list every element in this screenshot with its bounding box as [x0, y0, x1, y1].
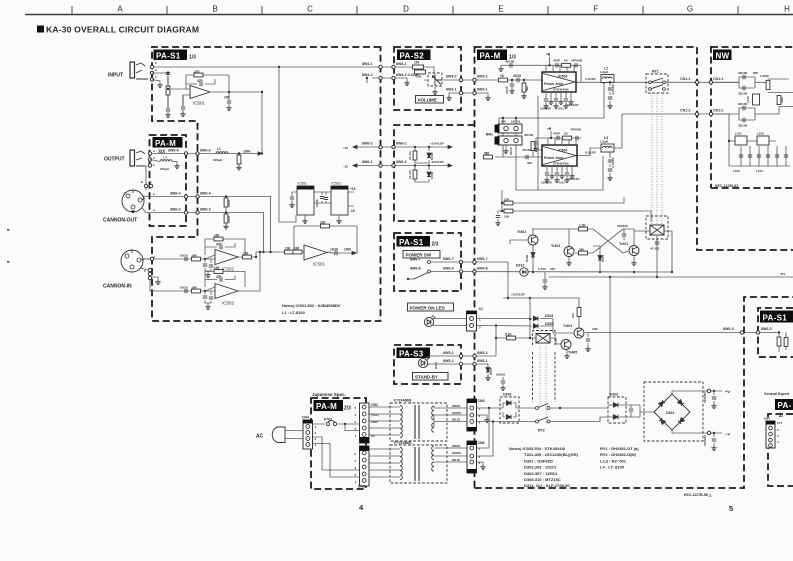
- wire Tr405 gnd: [566, 350, 568, 354]
- svg-text:47/25: 47/25: [505, 86, 509, 94]
- svg-text:47K: 47K: [194, 70, 201, 74]
- power amp IC503: [542, 72, 576, 92]
- svg-text:1K: 1K: [500, 74, 505, 78]
- wire speaker line ch1: [576, 81, 739, 83]
- svg-text:100: 100: [285, 247, 291, 251]
- svg-text:PA-: PA-: [778, 401, 792, 410]
- svg-text:IC501: IC501: [313, 262, 326, 267]
- svg-text:56K: 56K: [525, 85, 529, 91]
- svg-text:CN3: CN3: [358, 485, 365, 489]
- svg-text:4.7/1SP: 4.7/1SP: [611, 84, 615, 95]
- IC503 top rail components: [498, 53, 582, 83]
- power supply module box edges: [475, 297, 793, 488]
- svg-text:PA-M: PA-M: [155, 139, 176, 148]
- NW power resistors: [760, 74, 784, 105]
- wire y229 relay drive top: [532, 228, 593, 230]
- svg-text:STAND-BY: STAND-BY: [415, 374, 438, 379]
- svg-text:100: 100: [224, 96, 230, 100]
- svg-text:8W4-2: 8W4-2: [362, 73, 373, 77]
- PA-S1 3/3 resistors: [777, 333, 788, 351]
- svg-text:CN6: CN6: [478, 441, 485, 445]
- D312 led in line: [516, 264, 528, 277]
- svg-text:2/3: 2/3: [344, 406, 351, 412]
- svg-text:Tr404: Tr404: [563, 324, 572, 328]
- connector CN5: [452, 399, 485, 431]
- svg-text:KEC-1127B-56 △: KEC-1127B-56 △: [684, 493, 713, 497]
- wire +V filter cap: [713, 391, 715, 404]
- svg-text:Notes) IC501,502 : NJM4558DV: Notes) IC501,502 : NJM4558DV: [282, 303, 341, 308]
- svg-text:Tr405: Tr405: [568, 351, 577, 355]
- svg-text:220: 220: [550, 267, 555, 271]
- OUTPUT jack J2: [130, 150, 146, 166]
- node 8W6-6: [184, 152, 187, 155]
- wire input main bus y67: [152, 66, 394, 68]
- wire x610 down to D302: [609, 277, 611, 397]
- POWER SW label: [403, 251, 440, 259]
- svg-text:10Ω: 10Ω: [780, 97, 784, 103]
- MODULE BOXES: [150, 46, 793, 489]
- wire pa-s2 8W4-2 into volume: [394, 78, 427, 80]
- svg-text:100: 100: [294, 247, 300, 251]
- wire vertical feed x279: [279, 67, 296, 222]
- +V -V outputs: [703, 389, 730, 446]
- svg-text:(GRN): (GRN): [452, 411, 461, 415]
- svg-text:D301 : GSF8ZD: D301 : GSF8ZD: [524, 458, 553, 463]
- svg-text:Power Amp: Power Amp: [544, 156, 563, 160]
- svg-text:1.2K: 1.2K: [579, 224, 586, 228]
- wire T1 secondary to CN5: [434, 408, 467, 422]
- relay RY1 contact box: [646, 70, 668, 94]
- node CN1-2: [695, 112, 698, 115]
- wire volume wiper out 8W3-2: [443, 79, 474, 81]
- relay RY2 coil: [533, 331, 556, 403]
- wire cross diag 1: [593, 229, 623, 253]
- svg-text:10-1/4: 10-1/4: [408, 170, 412, 179]
- node 8W3-1: [459, 91, 462, 94]
- svg-text:40/100: 40/100: [524, 133, 534, 137]
- node 8W6-4: [184, 195, 187, 198]
- svg-text:470P: 470P: [553, 59, 560, 63]
- wire AC prong upper: [285, 430, 303, 432]
- svg-text:1.2µH: 1.2µH: [600, 70, 608, 74]
- svg-text:33/100: 33/100: [738, 124, 748, 128]
- wire CN5-2 gnd: [476, 415, 487, 418]
- svg-text:100: 100: [243, 252, 249, 256]
- svg-text:47P: 47P: [197, 79, 204, 83]
- IC501b output network: [327, 248, 351, 256]
- wire CN1-2 speaker line ch2: [614, 114, 729, 148]
- node 8W6-7: [459, 260, 462, 263]
- notes block right column: [600, 446, 639, 470]
- diode block D302: [608, 393, 626, 424]
- svg-text:P.T(X4668): P.T(X4668): [394, 441, 411, 445]
- wire diode sum to Tr404 base: [553, 319, 573, 334]
- wire x579 Tr404 collector: [578, 298, 580, 328]
- svg-text:CN1-1: CN1-1: [680, 77, 690, 81]
- svg-text:CN1-2: CN1-2: [680, 109, 690, 113]
- PA-S1 2/3 module box: [394, 233, 461, 291]
- PA-M 3/3 module box: [150, 135, 187, 226]
- svg-text:0V: 0V: [371, 434, 375, 438]
- wire input to op-amp: [152, 73, 190, 95]
- svg-text:8W3-1: 8W3-1: [446, 88, 457, 92]
- svg-text:8W6-8: 8W6-8: [410, 266, 421, 270]
- node 8W4-1: [379, 65, 382, 68]
- inductor L3: [600, 136, 614, 152]
- svg-text:PA-M: PA-M: [316, 402, 337, 411]
- svg-text:−15: −15: [343, 164, 348, 168]
- connector BR1: [486, 117, 522, 155]
- svg-text:-15: -15: [350, 209, 355, 213]
- svg-text:8W4-1: 8W4-1: [362, 62, 373, 66]
- wire feedback loop under IC504: [516, 156, 603, 190]
- NW lower branch trunk: [729, 114, 776, 166]
- PA-M 1/3 module box (left edge shared with power box below): [475, 47, 793, 250]
- svg-text:10K: 10K: [504, 198, 510, 202]
- wire RY2 coil feed: [496, 338, 561, 344]
- wire CN6-3 gnd: [476, 462, 483, 465]
- D306 zener: [525, 253, 535, 262]
- gnd volume bottom: [434, 87, 436, 90]
- svg-text:POWER ON LED: POWER ON LED: [410, 305, 446, 310]
- svg-text:D302: D302: [610, 393, 618, 397]
- svg-text:8W6-5: 8W6-5: [723, 327, 734, 331]
- CANNON-IN connector: [121, 250, 144, 272]
- IC504 bottom pin components: [541, 166, 580, 185]
- svg-text:BR1: BR1: [486, 133, 493, 137]
- NW inductor L103: [757, 132, 769, 146]
- wire LED to C1 upper: [434, 318, 468, 320]
- CANNON-OUT connector: [122, 190, 145, 213]
- inductor L1 on 8W6-6: [213, 147, 228, 162]
- svg-text:POWER SW: POWER SW: [406, 252, 432, 257]
- svg-text:100/100: 100/100: [540, 107, 551, 111]
- NW tag: [713, 50, 732, 61]
- svg-text:L1: L1: [217, 147, 221, 151]
- svg-text:560: 560: [484, 152, 490, 156]
- wire ic501b out arrow: [352, 251, 356, 254]
- IC50x supply block IC501: [289, 182, 314, 224]
- svg-text:G: G: [687, 5, 693, 14]
- op-amp IC501 second stage: [304, 245, 327, 267]
- wire cross to coil: [623, 229, 634, 253]
- wire BR1 down legs: [503, 133, 516, 157]
- wire 8W5-2: [429, 355, 496, 357]
- svg-text:CANNON-OUT: CANNON-OUT: [103, 218, 137, 224]
- wire CN6-1 up-link: [476, 408, 489, 448]
- svg-text:8W6-7: 8W6-7: [477, 257, 488, 261]
- svg-text:8W6-7: 8W6-7: [443, 257, 454, 261]
- svg-text:CANNON-IN: CANNON-IN: [103, 284, 132, 290]
- IC504 top rail components: [524, 127, 582, 152]
- svg-text:D303: D303: [503, 393, 511, 397]
- power on LED D313: [424, 315, 435, 326]
- wire fuse jog to CN2 pin: [345, 424, 360, 431]
- svg-text:100/10: 100/10: [496, 373, 506, 377]
- svg-text:8W5-2: 8W5-2: [443, 351, 454, 355]
- svg-text:100µH: 100µH: [213, 158, 222, 162]
- svg-text:40/16: 40/16: [513, 74, 521, 78]
- svg-text:E: E: [498, 5, 503, 14]
- RY1 coil cap: [650, 242, 660, 251]
- resistor 100 Tr404 collector: [571, 308, 581, 319]
- wire cannon-in upper input: [142, 258, 215, 260]
- svg-text:Notes) IC503,504 : STK4044XI: Notes) IC503,504 : STK4044XI: [509, 446, 565, 451]
- wire RY1 coil cap branch: [656, 236, 658, 277]
- svg-text:WP: WP: [753, 71, 758, 75]
- svg-text:CN1-1: CN1-1: [713, 77, 723, 81]
- wire 8W6-6 output line: [150, 153, 258, 155]
- svg-text:+15: +15: [350, 187, 356, 191]
- svg-text:8W6-1: 8W6-1: [396, 160, 407, 164]
- CANNON-OUT link down from output jack: [145, 166, 147, 190]
- node 8W6-8: [459, 270, 462, 273]
- svg-text:NW: NW: [716, 51, 730, 60]
- General Export CN4 connector: [764, 417, 783, 449]
- transformer T1: [390, 399, 447, 442]
- PA-S3 module box: [394, 345, 461, 384]
- svg-text:100/1SP: 100/1SP: [567, 103, 579, 107]
- svg-text:60/10: 60/10: [509, 147, 513, 155]
- svg-text:L1 : LT-8100: L1 : LT-8100: [282, 310, 306, 315]
- PA-S1 3/3 module box (cropped at right edge): [758, 308, 793, 357]
- power amp IC504: [542, 145, 577, 166]
- NW series L102: [755, 94, 757, 105]
- svg-text:(BLK): (BLK): [452, 458, 460, 462]
- PA-S3 tag: [397, 348, 431, 359]
- svg-text:4.7/1SP: 4.7/1SP: [611, 157, 615, 168]
- svg-text:(GRN): (GRN): [452, 451, 461, 455]
- border rule line: [25, 14, 793, 16]
- svg-text:+B: +B: [547, 127, 552, 131]
- svg-text:5: 5: [729, 504, 733, 513]
- wire sum node to ic501b: [256, 251, 304, 253]
- svg-text:100V: 100V: [371, 420, 378, 424]
- svg-text:D304: D304: [545, 314, 553, 318]
- PA-M 2/3 module box (Japanese Spec): [311, 398, 366, 489]
- wire 8W4-2 stub terminal: [367, 78, 394, 83]
- relay RY1 linkage dotted: [652, 93, 662, 225]
- input jack pins: [150, 65, 153, 68]
- STAND-BY label: [413, 373, 449, 381]
- bridge rectifier D301: [644, 382, 703, 441]
- svg-text:47P/500: 47P/500: [570, 128, 582, 132]
- svg-text:100K: 100K: [227, 199, 231, 207]
- svg-text:D304-307 : 11ES4: D304-307 : 11ES4: [524, 471, 558, 476]
- wire C1-2 branch: [476, 325, 553, 328]
- notes block left column: [509, 446, 579, 488]
- svg-text:1.5µH: 1.5µH: [600, 140, 608, 144]
- node junction x279 y67: [278, 66, 280, 68]
- wire Tr403 collector: [568, 229, 570, 246]
- svg-text:D306: D306: [525, 254, 529, 262]
- wire 1SP sense into PA-S1 3/3: [758, 333, 786, 353]
- svg-text:8W6-6: 8W6-6: [200, 149, 211, 153]
- svg-text:8W6-3: 8W6-3: [200, 208, 211, 212]
- wire supply rails to relay circuit: [498, 190, 651, 222]
- svg-text:IC501: IC501: [193, 101, 206, 106]
- svg-text:PA-S2: PA-S2: [400, 51, 425, 60]
- wire 8W6-1 -15 line: [357, 165, 448, 167]
- wire 100P branch: [587, 333, 589, 348]
- svg-text:D311, 312 : SLP-2798-50: D311, 312 : SLP-2798-50: [524, 483, 570, 488]
- svg-text:D311: D311: [434, 362, 438, 369]
- svg-text:IC502: IC502: [222, 267, 235, 272]
- CANNON-IN shield gnd: [150, 277, 158, 280]
- svg-text:L4 : LT- 8100: L4 : LT- 8100: [600, 465, 625, 470]
- wire cannon-in lower input: [150, 270, 215, 291]
- node x256: [256, 249, 271, 257]
- wire Tr404 emitter 1SP out: [585, 332, 758, 334]
- svg-text:D307: D307: [601, 254, 605, 262]
- svg-text:560: 560: [501, 120, 506, 124]
- svg-text:8W6-5: 8W6-5: [761, 327, 772, 331]
- connector CN6: [452, 441, 485, 473]
- summing resistors to IC501b: [243, 247, 303, 259]
- cannon-in input RC network upper: [180, 254, 215, 278]
- NW bottom caps row: [739, 155, 788, 157]
- volume pot VR1: [428, 73, 442, 86]
- wire Tr401 legs: [633, 229, 635, 261]
- svg-text:1.25W: 1.25W: [760, 74, 769, 78]
- input jack J1: [130, 62, 148, 79]
- NW bottom rail: [729, 165, 790, 167]
- svg-text:8W3-2: 8W3-2: [446, 75, 457, 79]
- input RC stack 1: [167, 71, 169, 108]
- cap 100/100 at Tr401: [617, 224, 628, 240]
- svg-text:H: H: [784, 5, 790, 14]
- NW input wire ch1: [711, 81, 739, 83]
- svg-text:390: 390: [527, 161, 532, 165]
- svg-text:PA-S1: PA-S1: [399, 238, 424, 247]
- node 8W5-2: [459, 354, 462, 357]
- resistor 5.1K: [505, 333, 516, 340]
- wire LED to C1 lower: [434, 325, 468, 327]
- relay RY1 coil: [646, 216, 668, 239]
- svg-text:560: 560: [192, 286, 197, 290]
- svg-text:INPUT: INPUT: [108, 73, 123, 79]
- svg-text:RY2: RY2: [538, 429, 545, 433]
- NW module box: [711, 46, 793, 188]
- AC plug: [256, 427, 285, 443]
- svg-text:10/16: 10/16: [315, 199, 319, 207]
- feedback resistor 100 IC501a: [186, 70, 229, 89]
- column tick marks: [72, 6, 738, 14]
- node 8W6-1: [379, 164, 382, 167]
- svg-text:0.1/1SP: 0.1/1SP: [585, 77, 596, 81]
- svg-text:2/3: 2/3: [432, 242, 439, 248]
- svg-text:8W6-1: 8W6-1: [362, 160, 373, 164]
- PA-M 2/3 tag: [314, 400, 352, 412]
- svg-text:+B: +B: [546, 53, 551, 57]
- svg-text:D308: D308: [430, 152, 434, 160]
- svg-text:41-152: 41-152: [650, 247, 660, 251]
- wire -V filter cap: [713, 433, 715, 446]
- svg-text:8W6-6: 8W6-6: [168, 149, 179, 153]
- wire ic502a out: [238, 256, 256, 258]
- NW crossover caps upper: [738, 71, 758, 96]
- svg-text:+: +: [143, 194, 145, 198]
- svg-text:8W4-1: 8W4-1: [396, 62, 407, 66]
- 8W6-4 load resistor between lines: [224, 195, 231, 213]
- D307 zener: [598, 254, 605, 262]
- svg-text:1SP: 1SP: [592, 327, 598, 331]
- wire ic502b out: [238, 252, 260, 291]
- Tr405: [561, 340, 577, 355]
- svg-text:1000/50: 1000/50: [703, 435, 707, 446]
- svg-text:D302,303 : 1S2CI: D302,303 : 1S2CI: [524, 465, 556, 470]
- svg-text:5.1K: 5.1K: [505, 333, 512, 337]
- svg-text:CN4: CN4: [302, 416, 309, 420]
- COMPONENTS: [103, 62, 356, 315]
- svg-text:+V: +V: [725, 389, 730, 394]
- svg-text:0.01: 0.01: [559, 181, 565, 185]
- svg-text:General Export: General Export: [764, 392, 790, 396]
- svg-text:40/100: 40/100: [505, 60, 515, 64]
- svg-text:33/100: 33/100: [738, 102, 748, 106]
- svg-text:L102: L102: [733, 169, 740, 173]
- svg-text:PA-S3: PA-S3: [399, 349, 424, 358]
- wire C1-1 to D304: [476, 318, 553, 320]
- power switch SW1: [407, 261, 431, 281]
- title block square: [37, 26, 44, 33]
- svg-text:8W6-4: 8W6-4: [170, 192, 181, 196]
- op-amp IC501 first stage: [190, 86, 210, 106]
- Tr404: [563, 324, 584, 338]
- connector C1: [467, 307, 484, 331]
- svg-text:PA-S1: PA-S1: [156, 51, 181, 60]
- NW crossover caps lower: [738, 102, 748, 128]
- PA-S2 module box: [394, 47, 461, 110]
- CANNON-OUT pin wires: [142, 197, 150, 213]
- svg-text:47/100: 47/100: [522, 148, 532, 152]
- fuse F702: [324, 418, 337, 426]
- svg-text:33/100: 33/100: [738, 71, 748, 75]
- svg-text:IC503: IC503: [558, 75, 567, 79]
- svg-text:IC504: IC504: [558, 149, 567, 153]
- wire y277 rail: [549, 276, 793, 278]
- NW ladder links ch1: [739, 77, 768, 88]
- svg-text:8W3-1: 8W3-1: [477, 88, 488, 92]
- svg-text:8W6-8: 8W6-8: [443, 266, 454, 270]
- wire 8W6-2 +15 line: [357, 146, 448, 148]
- svg-text:10/16: 10/16: [330, 248, 338, 252]
- svg-text:10K: 10K: [504, 215, 510, 219]
- wire D307 branch: [593, 246, 600, 272]
- node 8W3-2: [459, 78, 462, 81]
- ic504 input resistor: [484, 142, 543, 166]
- svg-text:D308-310 : MTZ15C: D308-310 : MTZ15C: [524, 477, 561, 482]
- svg-text:8W6-2: 8W6-2: [362, 142, 373, 146]
- svg-text:8W5-1: 8W5-1: [477, 359, 488, 363]
- svg-text:0.01: 0.01: [558, 107, 564, 111]
- svg-text:47V: 47V: [780, 272, 785, 276]
- svg-text:8W6-8: 8W6-8: [477, 266, 488, 270]
- CANNON-IN pin wires: [140, 259, 152, 270]
- IC503 bottom pin components: [540, 92, 579, 111]
- PA-M General Export tag: [775, 399, 793, 419]
- svg-text:1/3: 1/3: [189, 55, 196, 61]
- output cap to gnd: [227, 101, 231, 103]
- svg-text:RY1: RY1: [652, 70, 659, 74]
- svg-text:RY1 : DH2451-DT (a): RY1 : DH2451-DT (a): [600, 446, 639, 451]
- wire pa-s2 input chain: [394, 67, 434, 73]
- PA-M 1/3 tag: [477, 50, 516, 61]
- op-amp IC501a output net: [210, 75, 262, 154]
- svg-text:2/: 2/: [779, 413, 784, 419]
- svg-text:+15V/1SP: +15V/1SP: [430, 142, 444, 146]
- diode block D303: [500, 393, 519, 424]
